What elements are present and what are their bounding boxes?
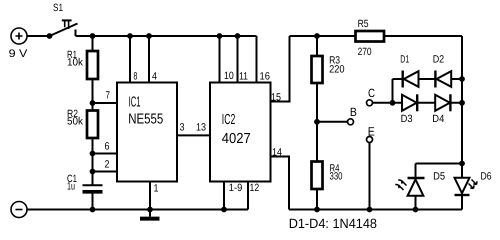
wire IC2 pin16 drop <box>256 36 258 83</box>
wire R3 leads <box>316 36 318 122</box>
wire pin14 <box>271 157 290 210</box>
svg-text:NE555: NE555 <box>128 112 163 128</box>
svg-text:50k: 50k <box>67 116 84 128</box>
diode D4 <box>435 94 450 111</box>
wire D5 branch <box>416 164 463 210</box>
node rail pin8 <box>127 33 133 39</box>
svg-text:IC1: IC1 <box>129 95 141 111</box>
battery terminal - <box>11 202 27 218</box>
svg-text:13: 13 <box>196 122 206 134</box>
wire IC2 pin10 <box>219 36 221 83</box>
svg-text:B: B <box>350 105 357 119</box>
node rail pin4 <box>146 33 152 39</box>
wire node C to bridge <box>373 102 393 104</box>
diode D2 <box>435 71 451 88</box>
node rail R1 <box>90 33 96 39</box>
resistor R2 <box>87 111 98 139</box>
svg-text:9 V: 9 V <box>9 48 29 60</box>
diode D1 <box>403 71 419 88</box>
svg-text:3: 3 <box>180 122 185 134</box>
svg-text:1u: 1u <box>67 181 75 193</box>
node D5 branch <box>459 161 465 167</box>
node D5 bottom <box>413 207 419 213</box>
node pin2/C1 <box>90 169 96 175</box>
wire +9V top rail <box>76 35 257 37</box>
node pin1 ground <box>147 207 153 213</box>
wire pin6 to pin2 node <box>92 154 94 172</box>
node R2/pin6 <box>90 151 96 157</box>
svg-text:D1: D1 <box>400 54 409 66</box>
op IC2 box <box>210 83 271 182</box>
wire C1 leads <box>92 172 94 210</box>
svg-text:R5: R5 <box>358 18 369 30</box>
node R4 bottom <box>314 207 320 213</box>
wire IC1 pin1 <box>149 182 151 210</box>
svg-text:D1-D4: 1N4148: D1-D4: 1N4148 <box>289 216 377 231</box>
svg-text:15: 15 <box>271 91 281 103</box>
wire IC1 pin8 <box>129 36 131 83</box>
node pins1-9 ground <box>221 207 227 213</box>
wire node E down <box>369 143 371 210</box>
node bridge left <box>390 100 396 106</box>
node C1 ground <box>90 207 96 213</box>
resistor R5 <box>356 31 385 42</box>
svg-text:16: 16 <box>260 71 271 83</box>
switch S1 <box>47 20 78 38</box>
svg-text:6: 6 <box>105 141 110 153</box>
svg-text:D5: D5 <box>433 170 445 182</box>
led D5 <box>395 178 424 196</box>
wire R4 leads <box>316 122 318 210</box>
svg-text:2: 2 <box>105 159 110 171</box>
svg-text:D3: D3 <box>401 113 413 125</box>
node B junction <box>314 119 320 125</box>
wire bridge bottom row <box>393 102 463 104</box>
wire R2 leads <box>92 103 94 154</box>
svg-text:S1: S1 <box>53 2 63 14</box>
svg-text:270: 270 <box>358 46 372 58</box>
svg-text:11: 11 <box>239 71 248 83</box>
node R3 top <box>314 33 320 39</box>
resistor R3 <box>312 56 323 83</box>
node C terminal <box>367 100 373 106</box>
svg-text:E: E <box>368 124 375 138</box>
svg-text:10: 10 <box>224 70 234 82</box>
wire pin2 <box>93 171 118 173</box>
led D6 <box>455 178 478 195</box>
wire IC2 pins1-9 <box>223 182 225 210</box>
capacitor C1 <box>83 185 103 192</box>
wire D6 to bottom <box>461 195 463 210</box>
diode D3 <box>402 94 417 111</box>
node rail pin10 <box>217 33 223 39</box>
svg-text:4027: 4027 <box>222 131 251 147</box>
wire pin6 <box>93 153 118 155</box>
svg-text:330: 330 <box>330 170 343 182</box>
svg-text:IC2: IC2 <box>222 112 236 128</box>
svg-text:10k: 10k <box>67 57 84 69</box>
wire bridge top row <box>393 78 463 80</box>
svg-text:4: 4 <box>152 71 157 83</box>
svg-text:1: 1 <box>154 183 159 195</box>
node bridge top right <box>459 76 465 82</box>
node bridge bottom right <box>459 100 465 106</box>
wire bridge left vertical <box>392 79 394 103</box>
wire battery+ to switch <box>27 35 50 37</box>
svg-text:8: 8 <box>133 71 137 83</box>
op IC1 box <box>117 83 177 182</box>
svg-text:1-9: 1-9 <box>229 182 243 194</box>
svg-text:D2: D2 <box>433 54 445 66</box>
wire IC2 pin12 riser <box>247 182 249 210</box>
node B terminal <box>348 119 354 125</box>
ground <box>140 210 160 219</box>
node R1/R2/pin7 <box>90 100 96 106</box>
svg-text:7: 7 <box>106 90 111 102</box>
wire pin14 bottom rail <box>289 209 462 211</box>
svg-text:D4: D4 <box>432 113 444 125</box>
wire to node B <box>317 121 347 123</box>
resistor R4 <box>312 162 323 190</box>
wire IC1 pin4 <box>148 36 150 83</box>
wire pin3 to pin13 <box>177 134 210 136</box>
svg-text:C: C <box>368 86 375 100</box>
node E bottom <box>367 207 373 213</box>
wire pin15 rail to R5 <box>290 35 356 37</box>
resistor R1 <box>87 51 98 79</box>
battery terminal + <box>11 28 27 44</box>
wire IC2 pin11 <box>237 36 239 83</box>
svg-text:12: 12 <box>250 182 260 194</box>
node rail pin11 <box>235 33 241 39</box>
wire ground rail <box>27 209 248 211</box>
wire pin7 <box>93 102 118 104</box>
node E terminal <box>367 137 373 143</box>
svg-text:220: 220 <box>329 64 345 76</box>
wire R5 to right rail <box>384 35 462 37</box>
svg-text:14: 14 <box>272 146 282 158</box>
wire right rail <box>461 36 463 178</box>
svg-text:D6: D6 <box>481 170 492 182</box>
wire pin15 <box>271 36 290 102</box>
wire R1 leads <box>92 36 94 103</box>
